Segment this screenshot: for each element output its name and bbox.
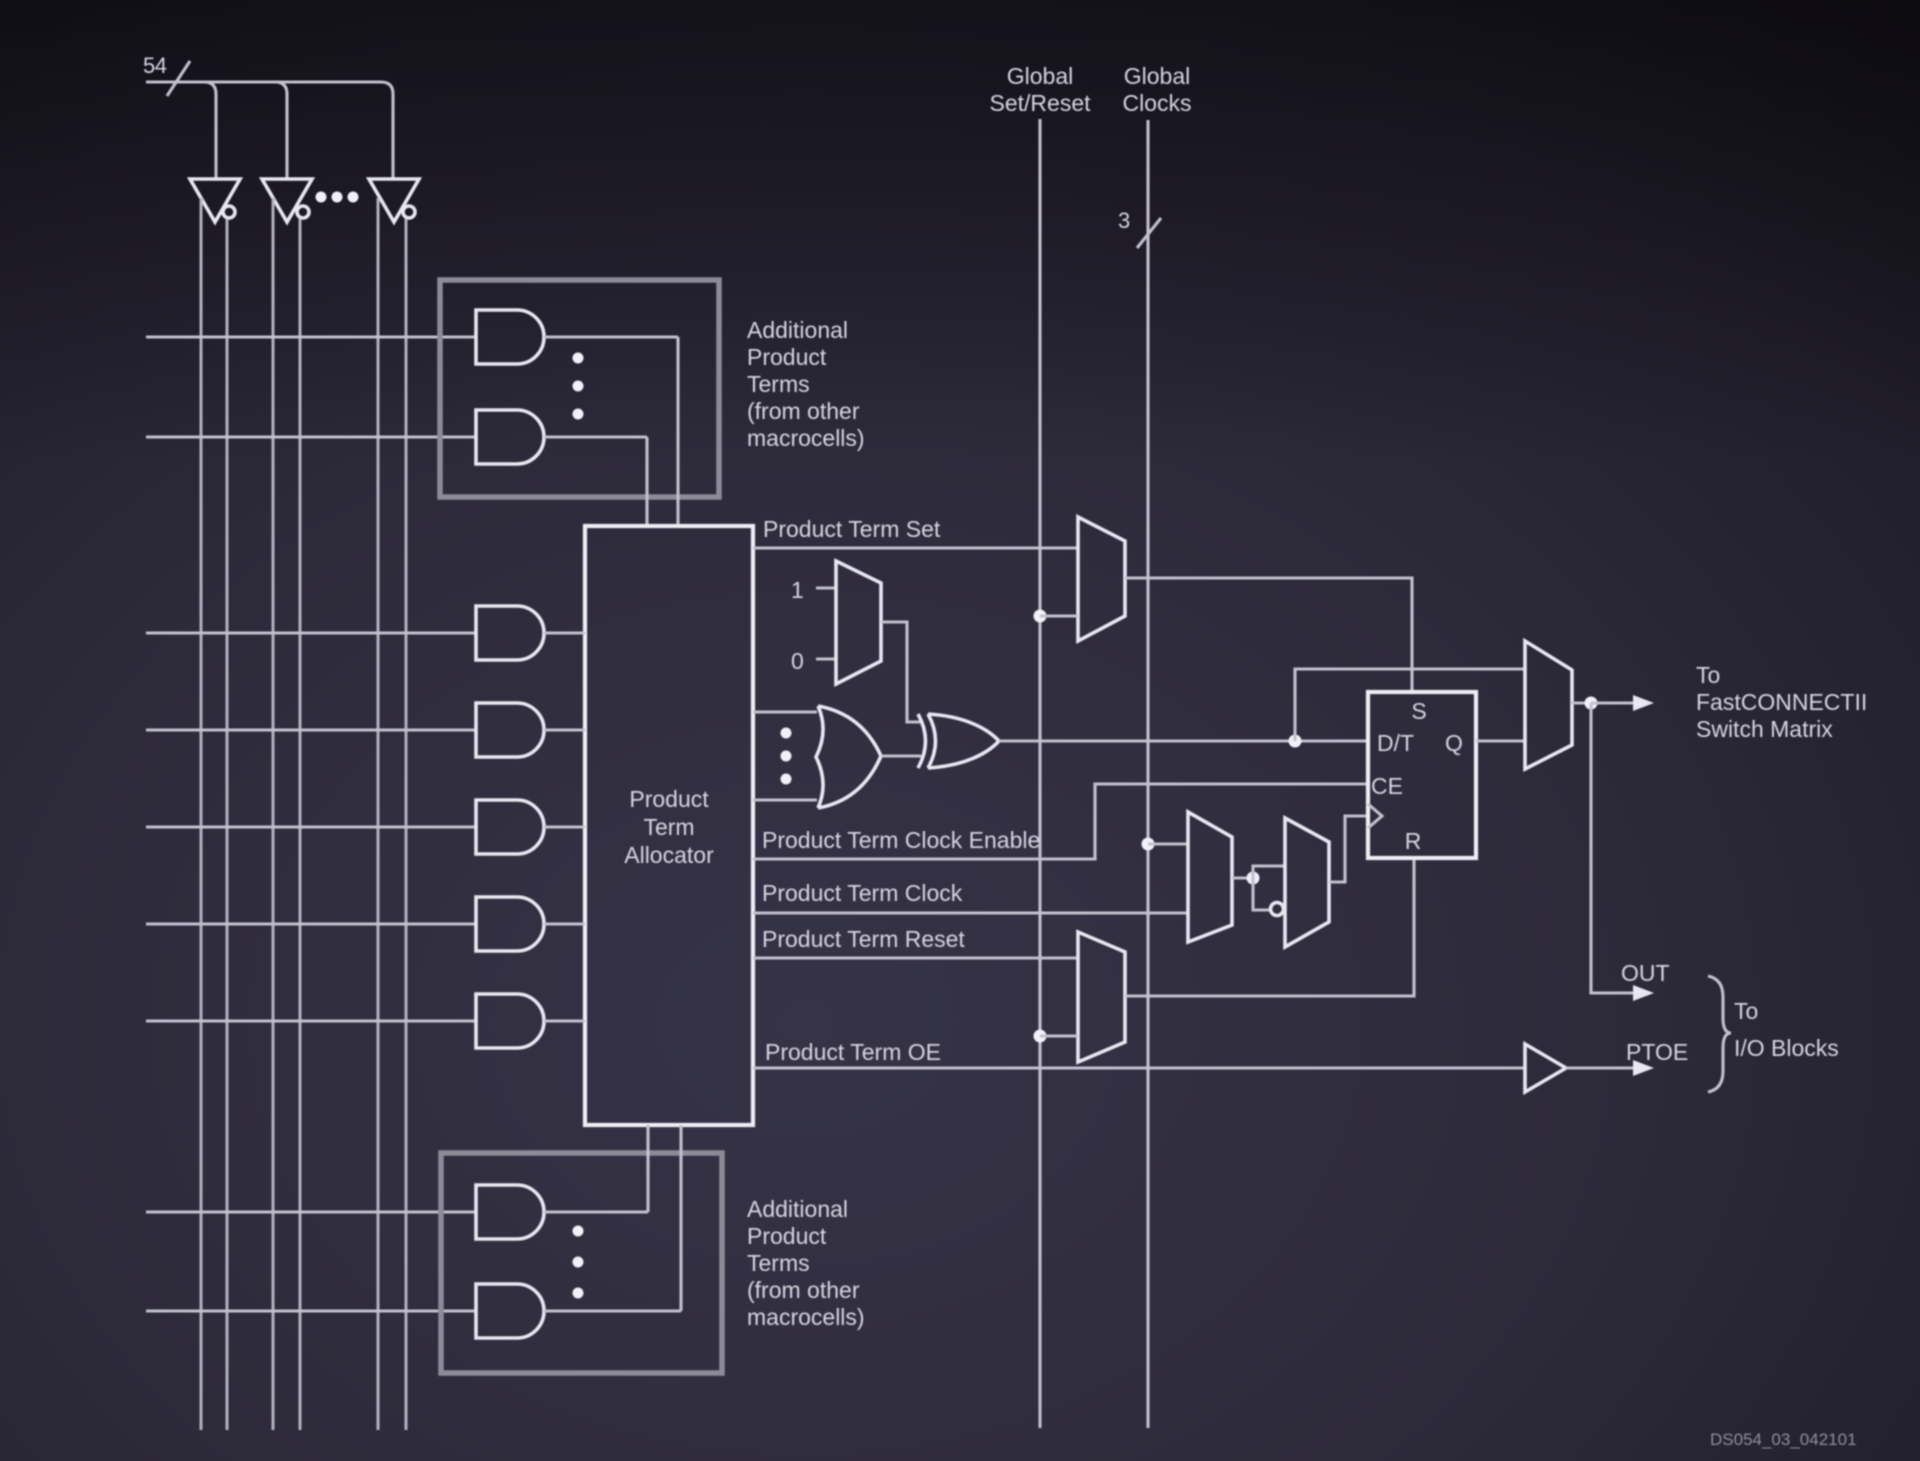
AND gate G4 [476, 703, 544, 757]
node D junction [1289, 735, 1302, 748]
mux M3 (clock select) [1188, 812, 1232, 942]
wire global clocks net [1146, 120, 1149, 1428]
mux M2 (set select) [1078, 517, 1125, 641]
clock wedge [1368, 804, 1382, 828]
svg-text:To: To [1734, 998, 1758, 1024]
ellipsis top box [573, 353, 584, 420]
ellipsis between buffers [316, 192, 359, 203]
wire AND input row 8 [146, 1210, 476, 1213]
wire gsr to M2 [1040, 614, 1078, 617]
AND gate G3 [476, 606, 544, 660]
svg-text:Product Term OE: Product Term OE [765, 1039, 941, 1065]
svg-text:Q: Q [1445, 730, 1463, 756]
svg-text:1: 1 [791, 577, 804, 603]
wire to switch matrix [1591, 701, 1633, 704]
wire array vertical 5 (U3 true) [377, 198, 380, 1430]
AND gate G2 [476, 410, 544, 464]
wire G3 output [544, 631, 585, 634]
buffer PTOE [1525, 1044, 1566, 1092]
arrowhead PTOE [1633, 1060, 1654, 1076]
wire AND input row 5 [146, 825, 476, 828]
mux M5 (reset select) [1078, 932, 1125, 1062]
svg-text:D/T: D/T [1377, 730, 1414, 756]
wire AND input row 7 [146, 1019, 476, 1022]
wire global set/reset net [1038, 119, 1041, 1428]
bus width slash 54 [167, 61, 190, 96]
AND gate G1 [476, 310, 544, 364]
mux M6 (output select) [1525, 641, 1572, 769]
svg-text:Product: Product [747, 344, 827, 370]
wire M4 output to FF clock [1329, 816, 1368, 882]
arrowhead OUT [1633, 985, 1654, 1001]
wire bus drop to buffer U1 [204, 82, 216, 179]
wire G2 output [544, 437, 647, 526]
wire M5 output to R [1125, 858, 1414, 996]
wire array vertical 1 (U1 true) [200, 198, 203, 1430]
svg-text:Global: Global [1007, 63, 1073, 89]
bus width slash 3 [1137, 218, 1161, 248]
svg-text:Additional: Additional [747, 317, 848, 343]
node clock polarity junction [1247, 872, 1260, 885]
svg-text:Product: Product [747, 1223, 827, 1249]
input buffer U3 [369, 179, 419, 222]
box additional product terms (bottom) [441, 1153, 722, 1373]
svg-text:R: R [1405, 828, 1422, 854]
node set/reset tap upper [1034, 610, 1047, 623]
wire M2 output to S [1125, 578, 1412, 692]
label global set/reset [990, 63, 1092, 116]
wire G1 output [544, 337, 678, 526]
brace to I/O blocks [1708, 976, 1731, 1092]
svg-text:S: S [1411, 698, 1426, 724]
XOR gate X1 [918, 714, 999, 768]
wire AND input row 4 [146, 728, 476, 731]
wire AND input row 1 [146, 335, 476, 338]
wire OUT branch [1591, 703, 1633, 993]
wire gck to M3 [1148, 842, 1188, 845]
wire array vertical 3 (U2 true) [272, 198, 275, 1430]
label additional product terms (bottom) [747, 1196, 865, 1330]
svg-text:Switch Matrix: Switch Matrix [1696, 716, 1833, 742]
svg-text:(from other: (from other [747, 398, 860, 424]
AND gate G5 [476, 800, 544, 854]
wire AND input row 9 [146, 1309, 476, 1312]
wire PTOE output [1566, 1066, 1633, 1069]
wire OR1 output [881, 754, 921, 757]
svg-text:Additional: Additional [747, 1196, 848, 1222]
svg-text:Term: Term [643, 814, 694, 840]
flip-flop U20 [1368, 692, 1476, 858]
label global clocks [1122, 63, 1191, 116]
AND gate G6 [476, 897, 544, 951]
ellipsis bottom box [573, 1226, 584, 1299]
svg-text:Product Term Set: Product Term Set [763, 516, 941, 542]
wire register bypass [1295, 669, 1525, 741]
AND gate G8 [476, 1185, 544, 1239]
wire G6 output [544, 922, 585, 925]
input buffer U2 [262, 179, 312, 222]
arrowhead to switch matrix [1633, 695, 1654, 711]
wire bus drop to buffer U2 [275, 82, 287, 179]
wire M6 output [1570, 701, 1591, 704]
mux M4 (clock polarity) [1285, 818, 1329, 947]
svg-text:macrocells): macrocells) [747, 425, 865, 451]
svg-text:Set/Reset: Set/Reset [990, 90, 1092, 116]
AND gate G9 [476, 1284, 544, 1338]
wire product term clock [753, 911, 1188, 914]
ellipsis OR inputs [781, 728, 792, 785]
svg-text:Global: Global [1124, 63, 1190, 89]
wire product term set [753, 546, 1078, 549]
svg-text:3: 3 [1118, 208, 1130, 233]
label product term allocator [624, 786, 714, 868]
wire gsr to M5 [1040, 1034, 1078, 1037]
label to I/O blocks [1734, 998, 1839, 1061]
wire product term clock enable [753, 784, 1368, 859]
wire G7 output [544, 1019, 585, 1022]
svg-text:To: To [1696, 662, 1720, 688]
wire AND input row 6 [146, 922, 476, 925]
svg-text:54: 54 [143, 53, 167, 78]
OR gate OR1 [816, 706, 881, 808]
box additional product terms (top) [440, 280, 719, 497]
wire G9 output [544, 1125, 681, 1311]
wire to M4 inverted input [1253, 878, 1269, 910]
node set/reset tap lower [1034, 1030, 1047, 1043]
wire OR input a [753, 710, 817, 713]
svg-text:DS054_03_042101: DS054_03_042101 [1710, 1430, 1857, 1449]
wire M3 output [1232, 876, 1253, 879]
wire array vertical 6 (U3 complement) [405, 219, 408, 1430]
inverter bubble on M4 input [1271, 903, 1284, 916]
wire Q output [1476, 739, 1525, 742]
wire array vertical 2 (U1 complement) [226, 219, 229, 1430]
svg-text:Product Term Clock Enable: Product Term Clock Enable [762, 827, 1040, 853]
wire X1 output to D/T [999, 739, 1368, 742]
svg-text:Product Term Reset: Product Term Reset [762, 926, 965, 952]
svg-text:Allocator: Allocator [624, 842, 714, 868]
svg-text:PTOE: PTOE [1626, 1039, 1688, 1065]
wire G5 output [544, 825, 585, 828]
wire input bus 54 [146, 82, 393, 179]
svg-text:Terms: Terms [747, 371, 810, 397]
wire to M4 true input [1253, 866, 1285, 878]
svg-text:Product Term Clock: Product Term Clock [762, 880, 963, 906]
svg-text:(from other: (from other [747, 1277, 860, 1303]
svg-text:OUT: OUT [1621, 960, 1670, 986]
wire product term reset [753, 956, 1078, 959]
svg-text:0: 0 [791, 648, 804, 674]
node output junction [1585, 697, 1598, 710]
AND gate G7 [476, 994, 544, 1048]
node gck tap [1142, 838, 1155, 851]
svg-text:Product: Product [629, 786, 709, 812]
label to fastconnect [1696, 662, 1867, 742]
input buffer U1 [190, 179, 240, 222]
label additional product terms (top) [747, 317, 865, 451]
svg-text:I/O Blocks: I/O Blocks [1734, 1035, 1839, 1061]
svg-text:Clocks: Clocks [1122, 90, 1191, 116]
wire product term OE [753, 1066, 1525, 1069]
wire M1 output to XOR [881, 622, 920, 722]
wire AND input row 2 [146, 435, 476, 438]
svg-text:FastCONNECTII: FastCONNECTII [1696, 689, 1867, 715]
wire AND input row 3 [146, 631, 476, 634]
product term allocator U10 [585, 526, 753, 1125]
wire OR input b [753, 798, 817, 801]
wire constant 1 input [816, 586, 836, 589]
svg-text:CE: CE [1371, 773, 1403, 799]
mux M1 (1/0 select) [836, 561, 881, 684]
svg-text:macrocells): macrocells) [747, 1304, 865, 1330]
svg-text:Terms: Terms [747, 1250, 810, 1276]
wire array vertical 4 (U2 complement) [299, 219, 302, 1430]
wire G8 output [544, 1125, 648, 1212]
wire G4 output [544, 728, 585, 731]
wire constant 0 input [816, 657, 836, 660]
